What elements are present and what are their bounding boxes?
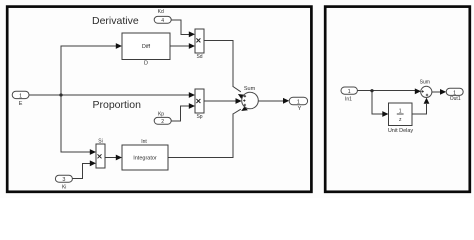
block Diff (derivative) bbox=[122, 33, 170, 67]
node junction on E line bbox=[59, 93, 62, 96]
svg-text:Sp: Sp bbox=[196, 114, 202, 120]
right subsystem frame (discrete integrator) bbox=[325, 7, 470, 192]
left subsystem frame (PID controller) bbox=[7, 7, 311, 192]
svg-text:1: 1 bbox=[399, 108, 402, 114]
input port In1 bbox=[341, 87, 357, 102]
wire Sp output to Sum bbox=[204, 98, 242, 104]
svg-text:1: 1 bbox=[348, 89, 351, 95]
svg-text:Out1: Out1 bbox=[450, 96, 461, 102]
wire E branch down to Si bbox=[61, 95, 90, 152]
svg-text:Integrator: Integrator bbox=[133, 156, 157, 162]
svg-text:Sd: Sd bbox=[196, 54, 202, 60]
svg-text:In1: In1 bbox=[345, 96, 352, 102]
svg-text:Diff: Diff bbox=[142, 44, 151, 50]
product block Sd bbox=[195, 29, 204, 60]
wire Sum to Out1 bbox=[432, 89, 446, 95]
svg-text:Sum: Sum bbox=[420, 80, 430, 86]
sum block Sum (right) bbox=[420, 80, 432, 98]
svg-text:D: D bbox=[144, 61, 148, 67]
wire Kp to Sp bbox=[171, 103, 195, 121]
wire Si output to Integrator bbox=[105, 155, 122, 161]
wire Sum to output Y bbox=[258, 98, 289, 104]
sum block Sum (left) bbox=[242, 86, 259, 109]
wire Diff output to Sd bbox=[170, 43, 195, 49]
wire Ki to Si bbox=[72, 160, 96, 178]
wire arrow into Diff bbox=[116, 43, 122, 49]
input port Ki (inport 3) bbox=[55, 175, 72, 190]
svg-text:1: 1 bbox=[297, 100, 300, 106]
wire Integrator output to Sum (bottom diagonal) bbox=[168, 106, 248, 157]
wire arrow into Si top bbox=[90, 149, 96, 155]
constant Kp bbox=[154, 111, 171, 125]
block Unit Delay (1/z) bbox=[388, 103, 414, 134]
wire branch to Unit Delay bbox=[372, 91, 389, 117]
output port Y (outport 1) bbox=[289, 97, 307, 112]
svg-text:Proportion: Proportion bbox=[93, 99, 142, 111]
product block Sp bbox=[195, 89, 204, 120]
svg-text:Ki: Ki bbox=[62, 185, 66, 191]
product block Si bbox=[96, 139, 105, 168]
block Integrator bbox=[122, 139, 168, 170]
constant Kd bbox=[154, 9, 171, 24]
svg-text:3: 3 bbox=[62, 177, 65, 183]
output port Out1 bbox=[446, 88, 463, 102]
svg-text:Kp: Kp bbox=[158, 111, 164, 117]
svg-text:E: E bbox=[19, 101, 23, 107]
svg-text:Sum: Sum bbox=[244, 86, 256, 92]
wire Unit Delay output to Sum bottom bbox=[412, 98, 429, 114]
wire In1 to Sum (right) bbox=[357, 88, 421, 94]
svg-text:Int: Int bbox=[141, 139, 147, 145]
svg-text:Derivative: Derivative bbox=[92, 15, 139, 27]
svg-text:Kd: Kd bbox=[158, 9, 164, 15]
svg-text:2: 2 bbox=[161, 119, 164, 125]
wire E main horizontal bbox=[29, 92, 195, 98]
node junction on In1 line bbox=[370, 89, 373, 92]
input port E (inport 1) bbox=[12, 91, 29, 107]
wire Sd output to Sum (top diagonal) bbox=[204, 41, 245, 99]
wire Kd to Sd bbox=[171, 20, 195, 37]
svg-text:4: 4 bbox=[161, 18, 164, 24]
wire E branch vertical bbox=[61, 46, 116, 95]
svg-text:1: 1 bbox=[19, 93, 22, 99]
svg-text:Y: Y bbox=[298, 106, 302, 112]
svg-text:Unit Delay: Unit Delay bbox=[388, 128, 414, 134]
